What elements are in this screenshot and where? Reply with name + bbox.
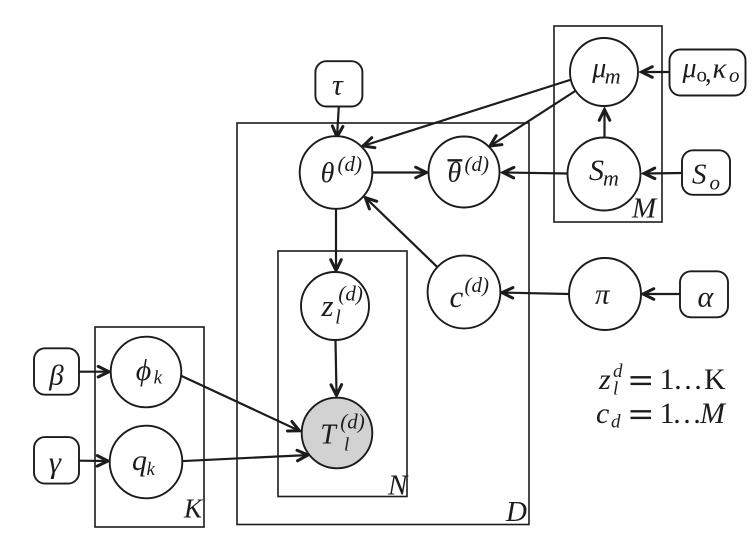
svg-text:ϕ: ϕ	[136, 354, 152, 387]
svg-text:μ: μ	[682, 53, 697, 84]
arrow theta_d -> thetabar_d	[373, 167, 427, 178]
svg-text:(d): (d)	[340, 410, 365, 434]
svg-text:M: M	[631, 193, 658, 225]
arrow mu_m -> theta_d	[363, 79, 573, 148]
label pi	[595, 279, 611, 311]
arrow z_l_d -> T_l_d	[331, 341, 342, 396]
arrow phi_k -> T_l_d	[181, 376, 300, 431]
plate label M	[631, 193, 658, 225]
svg-text:q: q	[132, 444, 147, 477]
label alpha	[698, 281, 715, 314]
label gamma	[49, 445, 62, 480]
arrow theta_d -> z_l_d	[331, 209, 342, 271]
label S_o	[692, 159, 720, 195]
svg-text:S: S	[692, 159, 707, 191]
svg-text:S: S	[589, 154, 604, 187]
node z_l_d	[301, 272, 369, 340]
svg-text:α: α	[698, 281, 715, 314]
hyperparam box gamma	[34, 437, 79, 484]
node pi	[569, 258, 641, 330]
svg-text:D: D	[505, 496, 527, 528]
arrow mu_o,kappa_o -> mu_m	[642, 67, 670, 78]
svg-text:k: k	[154, 368, 163, 389]
arrow S_o -> S_m	[644, 168, 682, 179]
arrow S_m -> thetabar_d	[503, 167, 567, 178]
svg-text:K: K	[183, 494, 204, 524]
label z_l_d	[321, 282, 363, 329]
hyperparam box beta	[34, 348, 79, 394]
plate D (documents)	[237, 123, 529, 525]
svg-text:(d): (d)	[338, 282, 363, 306]
hyperparam box tau	[315, 61, 362, 106]
svg-text:M: M	[699, 397, 727, 430]
svg-text:c: c	[450, 279, 464, 314]
svg-text:κ: κ	[713, 52, 728, 84]
node c_d	[428, 256, 501, 329]
equals sign of equation 2	[631, 410, 652, 419]
svg-text:θ: θ	[448, 158, 462, 189]
label S_m	[589, 154, 619, 191]
label c_d	[450, 273, 490, 314]
label mu_m	[591, 53, 620, 89]
equation c_d = 1 ... M	[596, 397, 727, 433]
svg-text:l: l	[335, 306, 341, 328]
plate M (mixture components)	[554, 26, 662, 222]
hyperparam box alpha	[680, 271, 728, 317]
arrow gamma -> q_k	[79, 456, 108, 467]
svg-text:T: T	[320, 420, 338, 451]
svg-text:(d): (d)	[338, 152, 363, 176]
arrow pi -> c_d	[502, 288, 569, 299]
arrow beta -> phi_k	[79, 366, 109, 377]
svg-text:z: z	[598, 363, 611, 396]
equation z_l^d = 1 ... K	[598, 361, 726, 400]
svg-text:m: m	[605, 64, 621, 89]
node S_m	[568, 138, 641, 211]
label mu_o,kappa_o	[682, 52, 740, 87]
plate N (words)	[278, 251, 407, 497]
plate label N	[387, 470, 409, 502]
arrow alpha -> pi	[643, 289, 680, 300]
overbar of thetabar	[448, 159, 463, 161]
node T_l_d (observed)	[302, 398, 373, 469]
svg-text:o: o	[729, 63, 740, 87]
node theta_d	[300, 136, 373, 209]
node q_k	[110, 426, 183, 499]
svg-text:τ: τ	[332, 68, 344, 101]
label phi_k	[136, 354, 163, 389]
arrow tau -> theta_d	[332, 107, 343, 138]
arrow mu_m -> thetabar_d	[490, 91, 576, 147]
equals sign of equation 1	[631, 376, 652, 385]
arrow q_k -> T_l_d	[178, 450, 308, 461]
node phi_k	[111, 337, 182, 408]
arrow c_d -> theta_d	[365, 198, 437, 268]
svg-text:θ: θ	[321, 158, 335, 189]
svg-text:o: o	[710, 171, 721, 195]
label theta_d	[321, 152, 362, 189]
svg-text:c: c	[596, 397, 609, 430]
label beta	[48, 359, 64, 391]
svg-text:…: …	[673, 363, 703, 396]
label q_k	[132, 444, 156, 480]
svg-text:d: d	[611, 412, 621, 433]
svg-text:k: k	[147, 459, 156, 480]
svg-text:N: N	[387, 470, 409, 502]
svg-text:π: π	[595, 279, 611, 311]
plate label K	[183, 494, 204, 524]
svg-text:β: β	[48, 359, 64, 391]
svg-text:,: ,	[705, 59, 712, 88]
svg-text:l: l	[613, 379, 618, 400]
hyperparam box S_o	[682, 150, 730, 195]
node thetabar_d	[429, 137, 500, 208]
hyperparam box mu_o,kappa_o	[670, 50, 746, 96]
arrow S_m -> mu_m	[599, 110, 610, 138]
svg-text:z: z	[321, 288, 334, 323]
plate K (topics)	[95, 327, 204, 527]
label T_l_d	[320, 410, 365, 456]
svg-text:(d): (d)	[465, 152, 490, 176]
svg-text:(d): (d)	[465, 273, 490, 297]
svg-text:γ: γ	[49, 445, 62, 480]
svg-text:…: …	[672, 397, 702, 430]
svg-text:K: K	[704, 363, 726, 396]
svg-text:l: l	[344, 435, 349, 456]
node mu_m	[570, 38, 638, 106]
label tau	[332, 68, 344, 101]
plate label D	[505, 496, 527, 528]
svg-text:m: m	[603, 166, 619, 191]
label thetabar_d	[448, 152, 490, 189]
